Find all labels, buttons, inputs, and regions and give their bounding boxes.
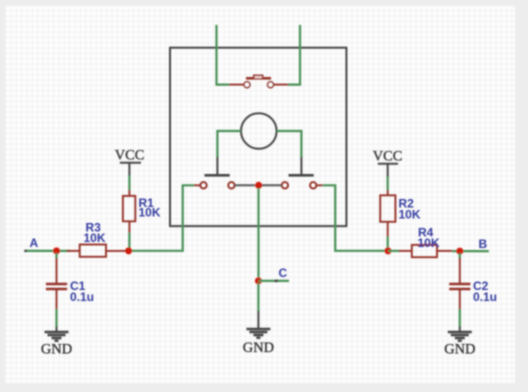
junction node A / C1 <box>53 247 60 254</box>
wire node C stub <box>258 280 289 282</box>
wire VCC to R1 <box>128 176 130 191</box>
wire R1 to node A rail <box>128 233 130 251</box>
resistor R3 <box>67 245 129 257</box>
ground GND right <box>444 327 475 358</box>
wire shaft to left wiper <box>217 131 241 158</box>
wire encoder pin4 to node B rail <box>323 185 388 251</box>
svg-text:GND: GND <box>243 340 274 356</box>
junction node C <box>255 277 262 284</box>
power VCC left <box>115 148 145 177</box>
encoder body outline <box>170 48 346 226</box>
wire end tick A <box>24 250 27 252</box>
wire top-right to push button <box>288 25 300 85</box>
push button S pin 1 <box>229 82 250 88</box>
ground GND center <box>243 329 274 356</box>
svg-text:GND: GND <box>444 342 475 358</box>
wire node B <box>452 250 489 252</box>
wire R2 to node B rail <box>387 237 389 251</box>
right wiper contact <box>289 157 314 175</box>
resistor R1 <box>123 190 135 233</box>
wire shaft to right wiper <box>277 131 302 158</box>
svg-text:B: B <box>479 237 488 251</box>
push button S pin 2 <box>268 82 288 88</box>
wire VCC to R2 <box>387 177 389 191</box>
capacitor C2 <box>449 253 470 327</box>
encoder shaft circle <box>241 113 277 149</box>
svg-text:A: A <box>30 236 39 250</box>
wire end tick C <box>275 280 279 282</box>
svg-text:0.1u: 0.1u <box>70 290 94 304</box>
encoder terminal pin 2 (inner left) <box>228 182 255 188</box>
capacitor C1 <box>46 253 67 327</box>
wire encoder common down to node C <box>257 188 259 281</box>
left wiper contact <box>205 157 230 175</box>
push button S actuator bar <box>246 75 271 78</box>
svg-text:10K: 10K <box>399 208 421 222</box>
svg-text:10K: 10K <box>418 236 440 250</box>
ground GND left <box>41 327 72 358</box>
svg-text:C: C <box>279 266 288 280</box>
svg-text:GND: GND <box>41 342 72 358</box>
resistor R4 <box>388 245 453 257</box>
encoder terminal pin 1 (outer left) <box>194 182 207 188</box>
encoder terminal pin 3 (inner right) <box>262 182 288 188</box>
encoder terminal pin 4 (outer right) <box>310 182 323 188</box>
svg-text:VCC: VCC <box>373 149 403 165</box>
power VCC right <box>373 149 403 178</box>
junction R2/R4 node B rail <box>385 247 392 254</box>
svg-text:10K: 10K <box>84 231 106 245</box>
svg-text:VCC: VCC <box>115 148 145 164</box>
svg-text:0.1u: 0.1u <box>473 290 497 304</box>
resistor R2 <box>380 190 395 237</box>
wire top-left to push button <box>217 25 230 85</box>
wire node C to ground <box>257 283 259 328</box>
junction node B / C2 <box>456 248 463 255</box>
wire encoder pin1 to node A rail <box>129 185 194 251</box>
svg-text:10K: 10K <box>139 206 161 220</box>
junction encoder common <box>255 182 262 189</box>
wire node A <box>25 250 70 252</box>
junction R1/R3 node A rail <box>125 247 132 254</box>
